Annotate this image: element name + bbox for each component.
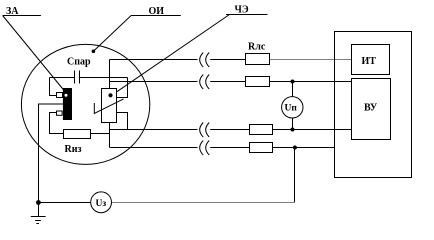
block ИТ xyxy=(352,45,390,75)
wire Rиз right to vertical bus xyxy=(91,133,110,135)
leader diagonal ОИ xyxy=(93,16,131,52)
thermistor diagonal with tail xyxy=(94,99,123,114)
wire 1 segments xyxy=(110,59,246,61)
enclosure ellipse ОИ xyxy=(21,44,149,164)
wire sensor right bottom step xyxy=(117,113,128,130)
node dot ЧЭ inside sensor xyxy=(108,93,112,97)
ground symbol xyxy=(31,203,46,224)
voltmeter Uп circle xyxy=(282,97,303,118)
contact 2 on heater bar xyxy=(57,111,63,115)
leader underline ЧЭ xyxy=(226,14,268,16)
svg-text:Uп: Uп xyxy=(285,104,298,114)
svg-text:ЧЭ: ЧЭ xyxy=(235,4,249,15)
wire sensor right top step xyxy=(117,78,128,98)
wire capacitor to right node xyxy=(80,77,128,79)
line break symbol wire2 xyxy=(200,75,210,90)
resistor on wire4 xyxy=(250,143,273,153)
node dot ground junction xyxy=(36,200,41,205)
sensor body rectangle ЧЭ xyxy=(102,89,117,123)
label Uп xyxy=(285,104,298,114)
capacitor Спар left wire xyxy=(50,77,75,79)
node dot white on heater bar xyxy=(65,94,68,97)
resistor on wire2 xyxy=(246,77,270,87)
leader diagonal ЧЭ to sensor dot xyxy=(112,15,230,96)
source rail gray segment xyxy=(112,202,295,204)
resistor Rиз xyxy=(64,130,91,139)
svg-text:ИТ: ИТ xyxy=(362,56,377,67)
outer unit box xyxy=(335,32,412,178)
svg-text:ВУ: ВУ xyxy=(364,103,378,114)
source rail bottom wire xyxy=(39,202,91,204)
block ВУ xyxy=(352,79,391,140)
contact 1 on heater bar xyxy=(57,93,63,98)
voltmeter Uп taps xyxy=(292,82,294,130)
svg-text:Rлс: Rлс xyxy=(248,42,266,53)
heater bar black element xyxy=(63,88,72,120)
resistor on wire3 xyxy=(250,125,273,135)
line break symbol wire4 xyxy=(200,141,210,156)
line break symbol wire3 xyxy=(200,123,210,138)
label ЗА xyxy=(6,6,19,17)
label Rлс xyxy=(248,42,266,53)
resistor Rлс xyxy=(246,54,270,65)
wire1 gray segment to ИТ xyxy=(270,59,352,61)
node dot ОИ pointer xyxy=(92,50,96,54)
label Rиз xyxy=(65,144,82,155)
svg-text:Спар: Спар xyxy=(67,57,91,68)
leader diagonal ЗА to heater xyxy=(3,16,65,92)
wire heater to ground rail xyxy=(39,104,63,203)
node dot wire2 to Uп xyxy=(291,80,295,84)
wire 2 segments xyxy=(110,81,352,83)
label ЧЭ xyxy=(235,4,249,15)
wire sensor bottom vertical bus xyxy=(109,123,111,148)
line break symbol wire1 xyxy=(200,53,210,68)
label Uз xyxy=(96,199,107,209)
source Uз circle xyxy=(91,192,112,213)
wire1 vertical into sensor top xyxy=(109,60,111,89)
leader underline ОИ xyxy=(131,15,181,17)
leader underline ЗА xyxy=(3,15,41,17)
label Спар xyxy=(67,57,91,68)
label ОИ xyxy=(149,6,165,17)
wire from wire4 node down to source rail xyxy=(294,148,296,203)
wire contact1 up to capacitor xyxy=(50,78,57,96)
svg-text:Uз: Uз xyxy=(96,199,107,209)
capacitor Спар plates xyxy=(75,71,80,84)
wire down from capacitor node to sensor right side xyxy=(117,78,128,98)
node dot wire3 to Uп xyxy=(291,128,295,132)
svg-text:Rиз: Rиз xyxy=(65,144,82,155)
node dot wire4 to source rail xyxy=(293,146,297,150)
wire 4 segments xyxy=(110,147,335,149)
wire contact2 down to Rиз xyxy=(50,113,64,134)
wire 3 segments xyxy=(110,129,352,131)
